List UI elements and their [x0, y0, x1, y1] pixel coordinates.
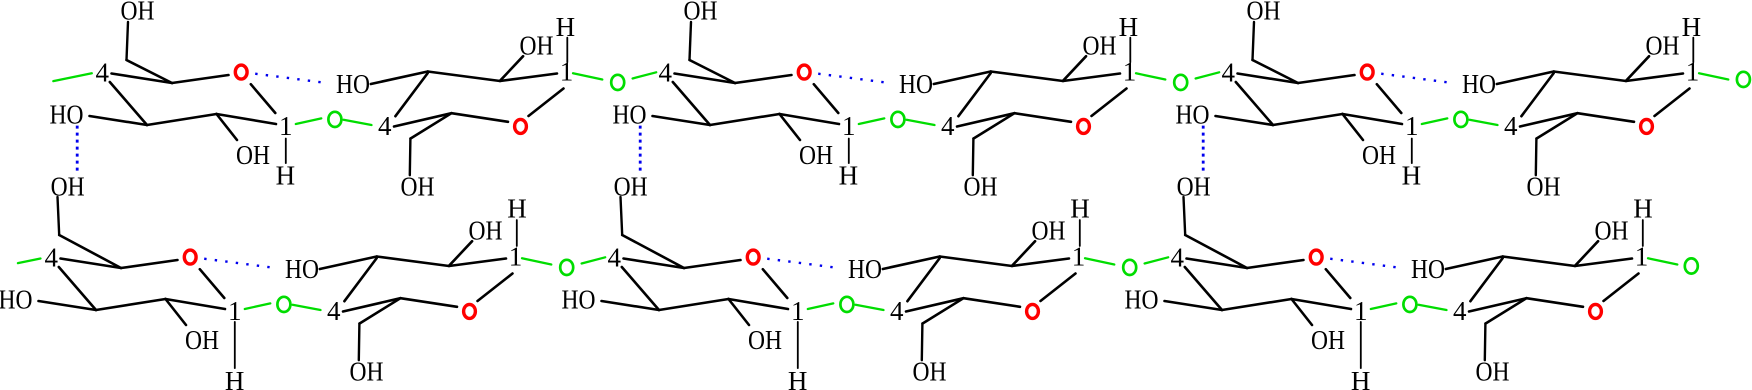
u3T ring A bond O6H-C6: [1253, 22, 1255, 60]
u3T ring B bond C3-C4: [1521, 73, 1553, 116]
u3B ring A bond C3-C2: [1222, 299, 1292, 310]
u3T ring B bond C3-C2: [1554, 72, 1626, 82]
u1B ring A bond C2-C1: [166, 299, 226, 309]
svg-text:H: H: [1070, 193, 1090, 223]
u3T ring B bond O3-C3: [1497, 72, 1554, 85]
svg-text:H: H: [1633, 193, 1653, 223]
u3T inter-chain hydrogen bond O3-H...O6 (dotted): [1202, 126, 1205, 172]
svg-text:4: 4: [659, 57, 673, 87]
u1T ring B bond C3-C2: [428, 72, 500, 82]
u3T ring B bond C5-O5: [1578, 113, 1635, 122]
svg-text:OH: OH: [1311, 325, 1345, 355]
u1B glycosidic bond C1'-O: [522, 258, 551, 264]
u2B ring B bond C3-C2: [940, 257, 1012, 267]
u1T ring B bond C5-C6: [411, 113, 452, 138]
u2T glycosidic oxygen (beta 1-4): [1174, 75, 1187, 90]
u3B ring B bond C5-C6: [1486, 298, 1527, 323]
u2B ring A bond C5-O5: [684, 260, 741, 268]
u1B ring B bond C2-C1: [449, 259, 506, 267]
svg-text:1: 1: [279, 111, 293, 141]
u2B ring B bond C1-H: [1079, 220, 1081, 246]
u1B ring A bond O3-C3: [39, 301, 97, 310]
u3B ring A bond C2-O2H: [1292, 299, 1313, 325]
u2T ring B bond C3-C4: [958, 73, 990, 116]
u3B ring B ring oxygen O5: [1590, 304, 1602, 318]
svg-text:HO: HO: [899, 69, 933, 99]
svg-text:HO: HO: [1462, 69, 1496, 99]
svg-text:OH: OH: [1083, 30, 1117, 60]
u2B ring B bond C2-C1: [1012, 259, 1069, 267]
u3B glycosidic oxygen (beta 1-4): [1403, 297, 1416, 312]
u1B glycosidic bond O-C4': [293, 305, 321, 310]
u3B glycosidic bond C1'-O: [1648, 258, 1677, 264]
svg-text:OH: OH: [1595, 215, 1629, 245]
u2T ring B bond C4-C5: [957, 113, 1015, 126]
u2T ring A bond C2-O2H: [780, 114, 801, 140]
u1T ring B bond C4-C5: [394, 113, 452, 126]
u3B ring B bond C2-O2H: [1575, 241, 1598, 266]
svg-text:HO: HO: [848, 254, 882, 284]
u3B ring B bond C6-O6H: [1484, 324, 1487, 361]
svg-text:4: 4: [1453, 296, 1467, 326]
u1B ring B bond C2-O2H: [449, 241, 472, 266]
svg-text:H: H: [1119, 12, 1139, 42]
u1B ring A ring oxygen O5: [184, 250, 196, 264]
u2B glycosidic oxygen (beta 1-4): [1123, 260, 1136, 275]
u1T ring A bond C5-O5: [172, 75, 229, 83]
svg-text:OH: OH: [51, 171, 85, 201]
u2T ring B bond C5-O5: [1015, 113, 1072, 122]
u1B ring A bond C4-C3: [59, 267, 96, 310]
svg-text:H: H: [839, 160, 859, 190]
svg-text:1: 1: [509, 241, 523, 271]
svg-text:4: 4: [45, 242, 59, 272]
u2B ring A bond O5-C1: [763, 269, 788, 298]
svg-text:OH: OH: [469, 215, 503, 245]
u3T ring A bond C5-O5: [1298, 75, 1355, 83]
u1T glycosidic stub into C4: [53, 73, 92, 81]
u1B ring A bond O6H-C6: [58, 197, 60, 235]
u1B ring A bond C2-O2H: [166, 299, 187, 325]
svg-text:H: H: [225, 366, 245, 390]
u1B glycosidic bond C1-O: [245, 303, 270, 309]
u2T ring B ring oxygen O5: [1078, 119, 1090, 133]
u3T ring B bond C2-C1: [1626, 74, 1683, 82]
svg-text:4: 4: [327, 296, 341, 326]
svg-text:OH: OH: [1646, 30, 1680, 60]
svg-text:OH: OH: [236, 140, 270, 170]
u3T ring A bond C1-H: [1411, 139, 1413, 164]
u1T ring A bond C1-H: [285, 139, 287, 164]
u2B ring A bond C3-C2: [659, 299, 729, 310]
u2B ring A bond O3-C3: [602, 301, 660, 310]
u1B ring B bond C5-C6: [360, 298, 401, 323]
u3T ring A ring oxygen O5: [1361, 65, 1373, 79]
u3B ring A bond C2-C1: [1292, 299, 1352, 309]
u1T ring B bond C2-O2H: [500, 56, 523, 81]
svg-text:4: 4: [378, 111, 392, 141]
u2B ring A bond O6H-C6: [621, 197, 623, 235]
svg-text:OH: OH: [1177, 171, 1211, 201]
u2T glycosidic oxygen (beta 1-4): [891, 112, 904, 127]
svg-text:H: H: [788, 366, 808, 390]
u1B ring A bond O5-C1: [200, 269, 225, 298]
u1B ring A bond C1-H: [234, 322, 236, 368]
u2T ring B bond C2-C1: [1063, 74, 1120, 82]
u2T ring B bond C3-C2: [991, 72, 1063, 82]
svg-text:H: H: [1682, 12, 1702, 42]
svg-text:H: H: [556, 12, 576, 42]
svg-text:1: 1: [1072, 241, 1086, 271]
svg-text:4: 4: [96, 57, 110, 87]
u2T inter-chain hydrogen bond O3-H...O6 (dotted): [639, 126, 642, 172]
u2T ring B bond C2-O2H: [1063, 56, 1086, 81]
u3B ring A bond C5-O5: [1247, 260, 1304, 268]
u2T glycosidic bond C1'-O: [1136, 73, 1165, 79]
u1T ring B ring oxygen O5: [515, 119, 527, 133]
svg-text:OH: OH: [121, 0, 155, 25]
u1T glycosidic oxygen (beta 1-4): [328, 112, 341, 127]
u3T glycosidic bond O-C4': [1470, 120, 1498, 125]
u1T ring B bond C2-C1: [500, 74, 557, 82]
u1T ring A bond O6H-C6: [127, 22, 129, 60]
u1T ring A bond C3-C2: [147, 114, 217, 125]
u3B ring A bond C6-C5: [1185, 235, 1247, 268]
u3B hydrogen bond O5...HO3 (dotted): [1330, 259, 1396, 268]
u1T ring B bond C3-C4: [395, 73, 427, 116]
u3T hydrogen bond O5...HO3 (dotted): [1381, 74, 1447, 83]
u3T ring A bond C3-C2: [1273, 114, 1343, 125]
u2T ring B bond C5-C6: [974, 113, 1015, 138]
u1T glycosidic oxygen (beta 1-4): [611, 75, 624, 90]
u1T glycosidic bond C1-O: [296, 118, 322, 124]
svg-text:H: H: [1351, 366, 1371, 390]
u1B ring B bond O3-C3: [320, 257, 377, 270]
u1T ring B bond C5-O5: [452, 113, 509, 122]
svg-text:OH: OH: [1247, 0, 1281, 25]
u3T glycosidic oxygen (beta 1-4): [1454, 112, 1467, 127]
u3B ring A bond C4-C5: [1187, 259, 1248, 269]
u2T ring A bond C3-C2: [710, 114, 780, 125]
u3B ring A bond O3-C3: [1165, 301, 1223, 310]
u1T glycosidic bond O-C4(next): [633, 72, 657, 78]
svg-text:HO: HO: [1176, 99, 1210, 129]
u2B ring B bond C5-O5: [964, 298, 1021, 307]
svg-text:OH: OH: [684, 0, 718, 25]
u3T ring A bond O5-C1: [1377, 84, 1402, 113]
u3T ring A bond C4-C5: [1238, 74, 1299, 84]
u1T ring A bond O5-C1: [251, 84, 275, 113]
u1T hydrogen bond O5...HO3 (dotted): [255, 74, 321, 83]
u3T ring B bond C6-O6H: [1535, 139, 1538, 176]
u2T ring A bond O5-C1: [814, 84, 839, 113]
svg-text:H: H: [507, 193, 527, 223]
svg-text:1: 1: [842, 111, 856, 141]
svg-text:HO: HO: [1411, 254, 1445, 284]
u1B ring B bond C3-C2: [377, 257, 449, 267]
u2T glycosidic bond C1-O: [859, 118, 885, 124]
u1T glycosidic bond O-C4': [344, 120, 372, 125]
u1B ring B bond C4-C5: [343, 298, 401, 311]
u3T glycosidic bond C1'-O: [1699, 73, 1728, 79]
svg-text:H: H: [1402, 160, 1422, 190]
u2B hydrogen bond O5...HO3 (dotted): [767, 259, 833, 268]
svg-text:4: 4: [1171, 242, 1185, 272]
svg-text:HO: HO: [0, 284, 33, 314]
u3T ring A bond C2-O2H: [1343, 114, 1364, 140]
u2T ring A bond C2-C1: [780, 114, 840, 124]
svg-text:4: 4: [1222, 57, 1236, 87]
u1T ring A bond C2-O2H: [217, 114, 238, 140]
u1B ring B bond C1-H: [516, 220, 518, 246]
u3B ring B bond O3-C3: [1446, 257, 1503, 270]
u1B ring B ring oxygen O5: [464, 304, 476, 318]
u2T ring A bond C4-C5: [675, 74, 736, 84]
u3B terminal glycosidic oxygen: [1685, 258, 1698, 273]
u1T ring A bond C6-C5: [127, 60, 173, 83]
u1T ring A bond C4-C5: [112, 74, 173, 84]
u3B ring A bond O6H-C6: [1184, 197, 1186, 235]
u2B ring A bond C4-C5: [624, 259, 685, 269]
u3B ring B bond C2-C1: [1575, 259, 1632, 267]
u3B ring B bond O5-C1: [1604, 274, 1639, 302]
u3B ring A bond C4-C3: [1185, 267, 1222, 310]
u1B ring A bond C5-O5: [121, 260, 178, 268]
u2T ring A bond O3-C3: [653, 116, 711, 125]
svg-text:HO: HO: [285, 254, 319, 284]
u1T ring B bond O5-C1: [529, 89, 564, 117]
u2T ring B bond O3-C3: [934, 72, 991, 85]
u3T ring B bond O5-C1: [1655, 89, 1690, 117]
svg-text:OH: OH: [748, 325, 782, 355]
u1B glycosidic oxygen (beta 1-4): [560, 260, 573, 275]
svg-text:OH: OH: [799, 140, 833, 170]
u3T ring A bond C6-C5: [1253, 60, 1299, 83]
svg-text:HO: HO: [613, 99, 647, 129]
u2B ring A bond C4-C3: [622, 267, 659, 310]
u1T ring A bond O3-C3: [90, 116, 148, 125]
svg-text:OH: OH: [614, 171, 648, 201]
svg-text:4: 4: [890, 296, 904, 326]
u3B ring B bond C3-C2: [1503, 257, 1575, 267]
u1B glycosidic bond O-C4(next): [582, 257, 606, 263]
u2T ring B bond C1-H: [1129, 38, 1131, 63]
svg-text:OH: OH: [401, 171, 435, 201]
u3T terminal glycosidic oxygen: [1737, 72, 1750, 87]
u1B glycosidic stub into C4: [18, 259, 41, 264]
u3B ring B bond C3-C4: [1470, 258, 1502, 301]
u2B ring A bond C2-O2H: [729, 299, 750, 325]
svg-text:4: 4: [941, 111, 955, 141]
svg-text:OH: OH: [913, 356, 947, 386]
u2B glycosidic bond C1-O: [808, 303, 834, 309]
u3B glycosidic bond C1-O: [1371, 303, 1397, 309]
u3B glycosidic bond O-C4': [1419, 305, 1447, 310]
svg-text:OH: OH: [1032, 215, 1066, 245]
u1B ring B bond C5-O5: [401, 298, 458, 307]
u3B ring A bond C1-H: [1360, 322, 1362, 368]
u1T ring A ring oxygen O5: [235, 65, 247, 79]
u2B ring B bond C2-O2H: [1012, 241, 1035, 266]
u3T ring A bond O3-C3: [1216, 116, 1274, 125]
u2B ring B ring oxygen O5: [1027, 304, 1039, 318]
svg-text:1: 1: [1405, 111, 1419, 141]
svg-text:HO: HO: [50, 99, 84, 129]
u2T hydrogen bond O5...HO3 (dotted): [818, 74, 884, 83]
u3B ring B bond C4-C5: [1469, 298, 1527, 311]
u3B ring B bond C1-H: [1642, 220, 1644, 246]
u2T ring A bond C5-O5: [735, 75, 792, 83]
u3T ring B bond C1-H: [1692, 38, 1694, 63]
u2B ring B bond O5-C1: [1041, 274, 1076, 302]
svg-text:OH: OH: [185, 325, 219, 355]
u3T ring B bond C4-C5: [1520, 113, 1578, 126]
u1B glycosidic oxygen (beta 1-4): [277, 297, 290, 312]
u2B ring B bond C3-C4: [907, 258, 939, 301]
u2B ring A ring oxygen O5: [747, 250, 759, 264]
u2T glycosidic bond O-C4(next): [1196, 72, 1220, 78]
u2B ring B bond C6-O6H: [921, 324, 924, 361]
u3T ring B ring oxygen O5: [1641, 119, 1653, 133]
u2B glycosidic oxygen (beta 1-4): [840, 297, 853, 312]
u2T ring A bond C4-C3: [673, 82, 710, 125]
svg-text:OH: OH: [1476, 356, 1510, 386]
u3T ring B bond C5-C6: [1537, 113, 1578, 138]
svg-text:OH: OH: [1362, 140, 1396, 170]
u3T glycosidic bond C1-O: [1422, 118, 1448, 124]
svg-text:OH: OH: [350, 356, 384, 386]
u2B ring A bond C6-C5: [622, 235, 684, 268]
u2B ring B bond C5-C6: [923, 298, 964, 323]
u1B ring B bond O5-C1: [478, 274, 513, 302]
u1B hydrogen bond O5...HO3 (dotted): [204, 259, 270, 268]
u3B ring A bond O5-C1: [1326, 269, 1351, 298]
u3T ring B bond C2-O2H: [1626, 56, 1649, 81]
u1T ring B bond O3-C3: [371, 72, 428, 85]
u3B ring A ring oxygen O5: [1310, 250, 1322, 264]
u1B ring A bond C6-C5: [59, 235, 121, 268]
u1B ring B bond C6-O6H: [358, 324, 361, 361]
u2B ring A bond C1-H: [797, 322, 799, 368]
svg-text:4: 4: [608, 242, 622, 272]
u1T ring A bond C2-C1: [217, 114, 277, 124]
u3B ring B bond C5-O5: [1527, 298, 1584, 307]
u3T ring A bond C4-C3: [1236, 82, 1273, 125]
u2T ring A bond C1-H: [848, 139, 850, 164]
u1B ring A bond C3-C2: [96, 299, 166, 310]
u2T ring A bond O6H-C6: [690, 22, 692, 60]
u1B ring A bond C4-C5: [61, 259, 122, 269]
svg-text:OH: OH: [1527, 171, 1561, 201]
svg-text:HO: HO: [562, 284, 596, 314]
u2T ring B bond C6-O6H: [972, 139, 975, 176]
u1T ring B bond C6-O6H: [409, 139, 412, 176]
svg-text:H: H: [276, 160, 296, 190]
u1T ring A bond C4-C3: [110, 82, 147, 125]
u2T ring B bond O5-C1: [1092, 89, 1127, 117]
svg-text:1: 1: [1635, 241, 1649, 271]
u2B ring B bond C4-C5: [906, 298, 964, 311]
u2T glycosidic bond O-C4': [907, 120, 935, 125]
u2T ring A ring oxygen O5: [798, 65, 810, 79]
u1B ring B bond C3-C4: [344, 258, 376, 301]
u1T ring B bond C1-H: [566, 38, 568, 63]
svg-text:OH: OH: [964, 171, 998, 201]
u1T glycosidic bond C1'-O: [573, 73, 602, 79]
u3T ring A bond C2-C1: [1343, 114, 1403, 124]
svg-text:HO: HO: [336, 69, 370, 99]
u2B ring A bond C2-C1: [729, 299, 789, 309]
svg-text:4: 4: [1504, 111, 1518, 141]
u2B glycosidic bond O-C4': [856, 305, 884, 310]
u1T inter-chain hydrogen bond O3-H...O6 (dotted): [76, 126, 79, 172]
u2B ring B bond O3-C3: [883, 257, 940, 270]
u2T ring A bond C6-C5: [690, 60, 736, 83]
u2B glycosidic bond O-C4(next): [1145, 257, 1169, 263]
svg-text:HO: HO: [1125, 284, 1159, 314]
svg-text:OH: OH: [520, 30, 554, 60]
u2B glycosidic bond C1'-O: [1085, 258, 1114, 264]
